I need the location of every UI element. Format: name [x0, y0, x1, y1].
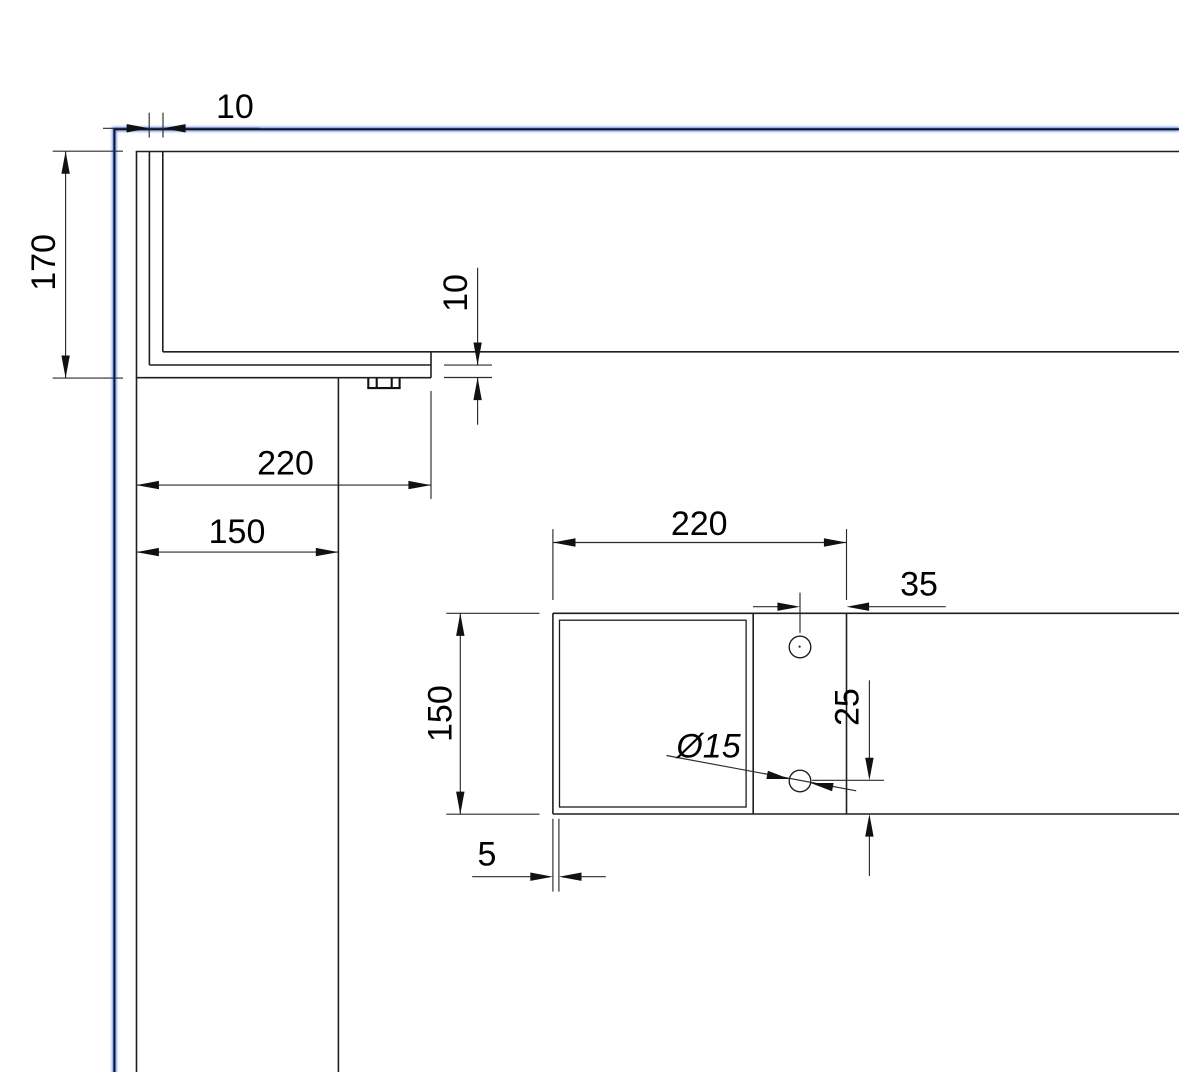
- svg-text:220: 220: [257, 445, 314, 483]
- svg-text:150: 150: [209, 513, 266, 551]
- svg-text:35: 35: [900, 565, 938, 603]
- svg-text:170: 170: [25, 234, 63, 291]
- svg-text:25: 25: [829, 688, 867, 726]
- svg-text:10: 10: [437, 274, 475, 312]
- svg-text:10: 10: [216, 88, 254, 126]
- svg-text:150: 150: [421, 685, 459, 742]
- svg-text:220: 220: [671, 505, 728, 543]
- svg-text:Ø15: Ø15: [675, 727, 740, 765]
- svg-text:5: 5: [478, 835, 497, 873]
